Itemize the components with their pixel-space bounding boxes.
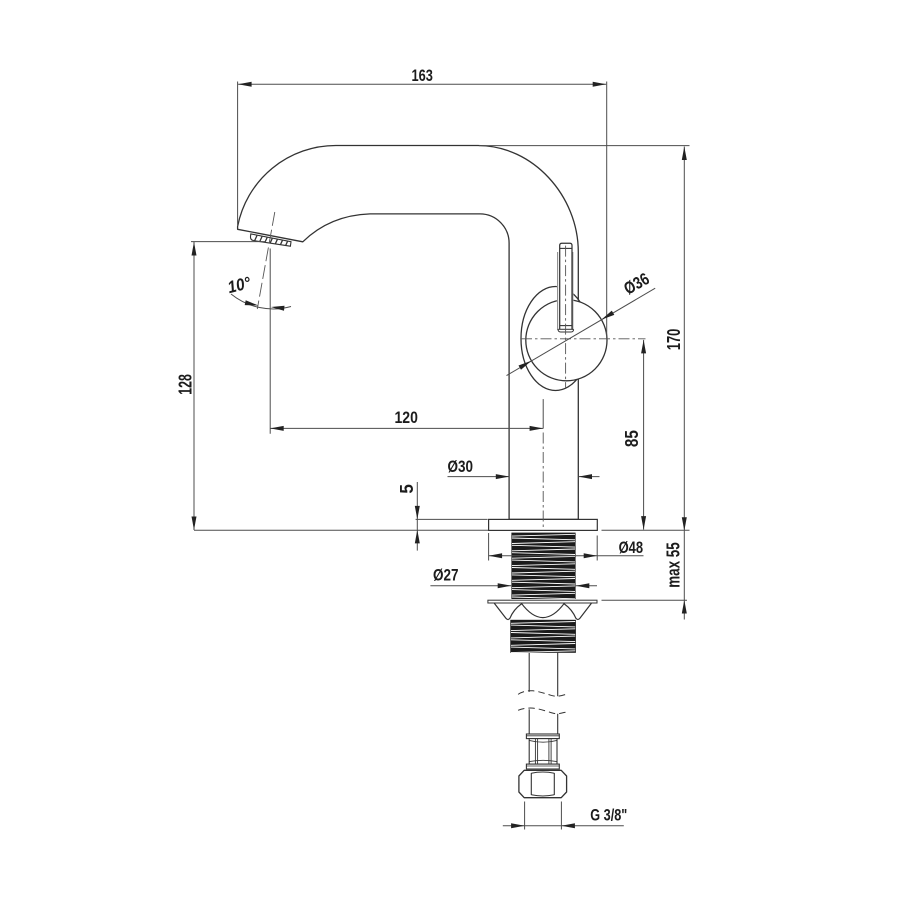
lever outer silhouette (light) [557,252,559,330]
svg-text:170: 170 [664,329,684,351]
svg-text:120: 120 [395,408,418,427]
dim D36 leader line [507,288,656,375]
body vertical centreline [542,433,544,531]
scalloped lock nut [494,603,591,619]
faucet body outline [238,145,579,519]
dim D48 extension lines [488,533,490,561]
dim G3/8 extension lines [524,802,526,830]
fitting cage [529,739,557,765]
handle horizontal centreline [521,338,646,340]
thin washer under counter [488,600,597,603]
supply pipe lower segment [528,709,530,733]
svg-text:128: 128 [175,374,195,395]
dim D27 leader [430,585,511,587]
outlet vertical reference line [269,249,271,434]
dim 170 top extension [479,145,690,147]
svg-text:Ø48: Ø48 [619,538,644,557]
dim max55 line [683,531,685,620]
dim 163 line [238,83,606,85]
mounting flange plate [489,519,598,530]
dim 5 line [416,482,418,551]
supply pipe upper segment [528,653,530,692]
handle boss (escutcheon behind ball) [521,287,590,391]
dim 163 extension lines [237,82,239,226]
body centreline extension above 120 dim [542,399,544,429]
pipe break symbol [518,691,568,697]
angle 10 deg arc [231,294,291,309]
fitting bottom collar [526,764,559,769]
upper threaded shank [511,533,575,599]
lever cap line [560,247,572,249]
washer top extension right [602,599,688,601]
dim D30 leader [448,476,510,478]
spout aerator [250,234,291,246]
spout outlet extension line [191,241,266,243]
hex coupling nut [519,770,567,797]
dim 5 extension line [416,518,488,520]
dim 128 line [193,242,195,530]
compression fitting top collar [526,734,559,739]
dim 85 line [643,340,645,530]
svg-text:Ø30: Ø30 [448,457,474,476]
dim 170 line [683,147,685,531]
svg-text:max 55: max 55 [664,542,684,588]
handle vertical centreline [565,246,567,388]
svg-text:Ø27: Ø27 [433,566,459,585]
svg-text:G 3/8": G 3/8" [590,805,627,824]
svg-text:85: 85 [622,430,642,447]
svg-text:163: 163 [412,66,433,85]
dim D48 line [489,555,644,557]
lever ferrule [560,325,572,327]
dim G3/8 line [503,825,624,827]
lever shaft outline [560,243,572,329]
mounting surface extension right [602,529,690,531]
svg-text:5: 5 [397,484,417,494]
lower threaded shank [510,620,576,653]
mounting surface line left [194,529,488,531]
dim 120 line [270,427,543,429]
handle ball joint circle [526,300,607,381]
handle lever [557,243,574,332]
outlet axis 10 deg centreline [257,212,275,309]
